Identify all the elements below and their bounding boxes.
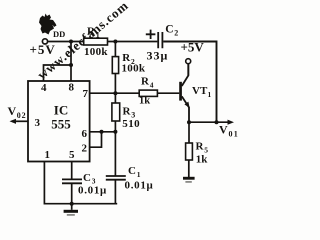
arrowhead Vo1 (228, 120, 235, 125)
svg-text:R: R (141, 76, 150, 88)
node: junction top rail to IC supply branch (69, 40, 73, 44)
svg-text:R: R (196, 140, 205, 152)
svg-text:1k: 1k (196, 154, 209, 166)
label C3 (83, 172, 96, 186)
label VT1 (192, 85, 212, 99)
resistor R4 (139, 90, 157, 96)
wire: junction down to R5 (188, 122, 190, 143)
svg-text:+5V: +5V (30, 42, 56, 57)
label R4 (141, 76, 154, 90)
wire: C1 bottom plate to ground rail (114, 180, 116, 204)
capacitor C2 plus sign (146, 30, 156, 39)
svg-text:DD: DD (53, 29, 65, 39)
svg-text:C: C (128, 165, 136, 177)
ground (right, below R5) (183, 177, 195, 183)
wire: R5 to ground (188, 160, 190, 177)
capacitor C3 plates (62, 179, 82, 183)
label R2 (122, 52, 135, 66)
label R1 (87, 26, 100, 40)
wire: R2 bottom to pin7 node and on to R3 (114, 74, 116, 104)
node: junction top rail to R2 (113, 40, 117, 44)
svg-text:33μ: 33μ (147, 49, 169, 63)
svg-text:IC: IC (54, 103, 68, 118)
svg-text:1k: 1k (139, 96, 150, 107)
svg-text:C: C (165, 24, 173, 36)
svg-text:510: 510 (122, 118, 140, 130)
svg-text:5: 5 (69, 149, 75, 161)
svg-text:0.01μ: 0.01μ (78, 185, 107, 197)
wire: +5V terminal to VT1 collector (187, 64, 189, 75)
svg-text:C: C (83, 172, 91, 184)
svg-text:R: R (87, 26, 96, 38)
svg-text:1: 1 (45, 149, 51, 161)
resistor R1 (84, 38, 108, 45)
resistor R5 (186, 143, 193, 160)
transistor VT1 emitter stroke (182, 96, 189, 121)
svg-text:3: 3 (35, 117, 41, 129)
arrowhead VT1 emitter (184, 102, 189, 108)
label Vo2 (8, 104, 27, 120)
svg-text:02: 02 (17, 111, 27, 120)
node: pin6/pin2 tie junction (100, 130, 104, 134)
svg-text:V: V (8, 104, 17, 118)
wire: rail junction down to R2 (114, 42, 116, 57)
label R5 (196, 140, 209, 154)
IC U1 555 body (28, 81, 90, 162)
watermark www.elecfans.com diagonal (34, 0, 131, 82)
ink blob (smudged V of VDD) (39, 14, 57, 35)
svg-text:VT: VT (192, 85, 208, 97)
resistor R3 (112, 103, 120, 121)
wire: pin 5 down to C3 (71, 162, 73, 180)
svg-text:555: 555 (51, 117, 71, 132)
label Vo1 (219, 123, 239, 139)
wire: R3 bottom through pin6 node down to C1 (114, 121, 116, 176)
wire: C2 right plate to right vertical drop (163, 42, 216, 123)
svg-text:4: 4 (41, 82, 47, 94)
transistor VT1 collector stroke (182, 64, 189, 86)
svg-text:2: 2 (82, 142, 88, 154)
wire: pin 6 to node (90, 131, 116, 133)
capacitor C1 plates (106, 176, 126, 180)
node: junction at pin4/pin8 connector (69, 63, 73, 67)
label R3 (123, 106, 136, 120)
terminal +5V right (open circle) (186, 59, 191, 64)
node: pin 6 junction at R3/C1 line (113, 130, 117, 134)
svg-text:100k: 100k (84, 46, 108, 58)
label C1 (128, 165, 141, 179)
node: C2 drop joins Vo1 line (215, 120, 219, 124)
wire: pin 1 down and bottom ground rail (44, 162, 117, 204)
svg-text:8: 8 (69, 82, 75, 94)
wire: top rail R1 to C2 left plate (108, 41, 158, 43)
svg-text:7: 7 (83, 88, 89, 100)
svg-text:4: 4 (150, 81, 154, 90)
transistor VT1 base bar (179, 82, 182, 101)
svg-text:2: 2 (174, 29, 178, 38)
label C2 (165, 24, 178, 38)
capacitor C2 plates (158, 32, 162, 48)
resistor R2 (112, 57, 118, 74)
wire: connector to pin 4 (44, 65, 72, 82)
wire: C3 bottom plate to ground rail (71, 183, 73, 203)
svg-text:R: R (123, 106, 132, 118)
arrowhead Vo2 (10, 119, 17, 124)
svg-text:0.01μ: 0.01μ (125, 179, 154, 191)
wire: pin 2 loop to pin 6 (90, 132, 102, 147)
terminal +5V left (open circle) (42, 39, 47, 44)
wire: Vo1 output line (189, 121, 231, 123)
wire: pin 7 to node (90, 92, 140, 94)
node: ground rail junction (70, 202, 74, 206)
svg-text:1: 1 (137, 170, 141, 179)
wire: branch down to pin 8 (70, 42, 72, 82)
node: pin 7 junction (113, 91, 117, 95)
svg-text:100k: 100k (122, 63, 146, 75)
svg-text:6: 6 (82, 128, 88, 140)
wire: R4 to VT1 base (157, 92, 179, 94)
wire: pin 3 output to Vo2 arrow (12, 120, 28, 122)
ground (bottom center) (64, 204, 78, 216)
svg-text:01: 01 (229, 130, 239, 139)
svg-text:1: 1 (208, 90, 212, 99)
svg-text:1: 1 (96, 31, 100, 40)
svg-text:V: V (219, 123, 228, 137)
svg-text:+5V: +5V (181, 40, 205, 55)
wire: top +5V rail from terminal to R1 (48, 41, 84, 43)
node: emitter / Vo1 / R5 junction (187, 120, 191, 124)
